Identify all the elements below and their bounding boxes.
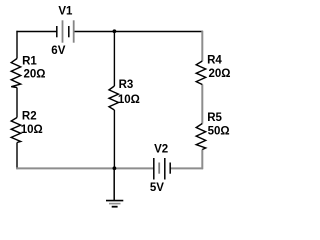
- svg-text:50Ω: 50Ω: [208, 126, 230, 138]
- resistor R4: [196, 61, 206, 85]
- svg-text:10Ω: 10Ω: [21, 124, 43, 136]
- svg-text:R4: R4: [207, 55, 222, 67]
- svg-text:20Ω: 20Ω: [209, 68, 231, 80]
- wire top-right horizontal (V1 right plate through node A to right corner): [74, 31, 203, 33]
- wire right vertical upper (top corner to R4): [201, 31, 203, 61]
- svg-text:20Ω: 20Ω: [24, 69, 46, 81]
- resistor R2: [11, 118, 21, 143]
- svg-text:R1: R1: [22, 55, 37, 67]
- wire bottom-right horizontal (V2 right plate to bottom-right corner): [170, 167, 203, 169]
- resistor R5: [196, 124, 206, 150]
- resistor R1: [11, 59, 21, 88]
- resistor R3: [109, 86, 119, 110]
- svg-text:V2: V2: [154, 144, 168, 156]
- battery V1: [57, 20, 74, 42]
- wire left vertical middle (R1 to R2): [16, 88, 18, 118]
- node A junction dot (top): [113, 29, 117, 33]
- battery V2: [154, 158, 170, 180]
- wire right vertical middle (R4 to R5): [201, 85, 203, 124]
- wire left vertical upper (corner to R1): [16, 31, 18, 59]
- wire top-left horizontal (left corner to V1 left plate): [16, 31, 56, 33]
- svg-text:V1: V1: [58, 6, 73, 18]
- wire middle vertical lower (R3 to node B): [113, 110, 115, 168]
- svg-text:R3: R3: [119, 79, 134, 91]
- wire left vertical lower (R2 to bottom corner): [16, 143, 18, 170]
- wire ground stem (node B to ground): [113, 168, 115, 200]
- wire middle vertical upper (node A to R3): [113, 32, 115, 87]
- wire bottom-left horizontal (corner through node B to V2 left plate): [16, 167, 153, 169]
- svg-text:R2: R2: [22, 111, 37, 123]
- svg-text:10Ω: 10Ω: [118, 94, 140, 106]
- wire right vertical lower (R5 to bottom corner): [201, 150, 203, 170]
- node B junction dot (bottom): [113, 166, 117, 170]
- svg-text:R5: R5: [207, 112, 222, 124]
- svg-text:6V: 6V: [51, 45, 65, 57]
- svg-text:5V: 5V: [150, 182, 164, 194]
- ground: [106, 201, 123, 207]
